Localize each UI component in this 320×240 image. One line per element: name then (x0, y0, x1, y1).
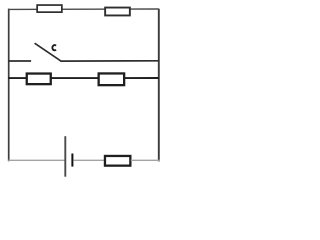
wire: top rail (8, 8, 159, 10)
wire: left vertical bus (8, 9, 10, 162)
resistor R1 (37, 5, 62, 12)
resistor R4 (99, 73, 125, 85)
wire: switch feed stub (8, 60, 31, 62)
switch S1 blade (35, 43, 61, 61)
wire: bottom rail left (8, 159, 64, 161)
wire: right vertical bus (158, 9, 160, 162)
resistor R3 (27, 74, 51, 85)
wire: bottom rail right (131, 159, 160, 161)
battery B1 long plate (64, 136, 66, 177)
resistor R5 (105, 156, 130, 166)
switch S1 label c (52, 45, 56, 50)
wire: middle rail (8, 77, 159, 79)
wire: switch to right bus (60, 60, 159, 62)
resistor R2 (105, 8, 130, 16)
wire: battery to R5 (73, 159, 104, 161)
battery B1 short plate (71, 154, 73, 167)
